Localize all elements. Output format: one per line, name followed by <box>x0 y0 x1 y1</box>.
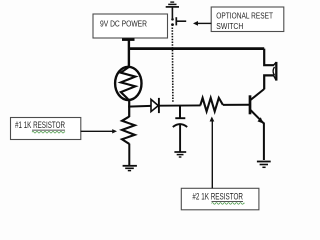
switch S1 (optional reset push-button: contacts + actuator bar) <box>171 17 186 26</box>
wire: R1 to ground <box>128 144 130 165</box>
svg-text:OPTIONAL RESET: OPTIONAL RESET <box>216 10 273 20</box>
capacitor C1 <box>173 106 187 153</box>
ground (below R1) <box>123 166 137 171</box>
wire: top rail <box>129 47 264 50</box>
wire: diode to R2 <box>159 104 200 106</box>
speaker SP1 <box>273 62 276 81</box>
label box: #1 1K RESISTOR <box>11 118 81 140</box>
wire: battery stub from 9V box <box>122 38 135 67</box>
wire: speaker bottom back to collector drop <box>264 75 273 89</box>
arrow from #1 label to R1 <box>81 129 118 133</box>
resistor R2 (horizontal zigzag) <box>200 98 223 112</box>
resistor R1 (vertical zigzag) <box>122 117 135 144</box>
ground (below Q1 emitter) <box>257 162 271 168</box>
label box: OPTIONAL RESET SWITCH <box>211 7 284 32</box>
wire: node A to diode <box>128 105 151 108</box>
wire: emitter down <box>263 123 265 161</box>
svg-text:#2 1K RESISTOR: #2 1K RESISTOR <box>192 191 243 201</box>
arrow from reset switch label to switch <box>193 21 211 26</box>
dotted wire: switch down to diode/cap node <box>171 28 174 102</box>
svg-text:SWITCH: SWITCH <box>216 21 243 31</box>
wire: right drop to speaker <box>264 49 273 66</box>
svg-text:#1 1K RESISTOR: #1 1K RESISTOR <box>15 120 65 130</box>
wire: circle bottom to node A <box>128 100 130 118</box>
svg-text:9V DC POWER: 9V DC POWER <box>100 18 147 28</box>
ground (below C1) <box>174 152 186 157</box>
photoresistor / lamp (circled resistor) <box>115 67 141 100</box>
ground (top, above reset switch) <box>166 2 179 18</box>
transistor Q1 (NPN) <box>223 89 264 124</box>
label box: 9V DC POWER <box>93 14 168 38</box>
diode D1 <box>151 98 159 113</box>
arrow from #2 label to R2 <box>210 117 215 189</box>
label box: #2 1K RESISTOR <box>181 188 259 210</box>
